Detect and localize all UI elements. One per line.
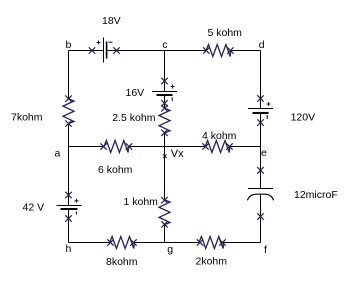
terminal x of 18V right: [114, 48, 120, 54]
svg-text:c: c: [162, 39, 167, 51]
terminal x of capacitor top: [258, 168, 264, 174]
svg-text:7kohm: 7kohm: [11, 112, 43, 124]
terminal x 2.5kohm bottom: [162, 130, 168, 136]
wire 16V battery to 2.5kohm: [164, 96, 166, 109]
terminal x 1kohm top: [162, 197, 168, 203]
wire 7kohm through node a to 42V battery: [68, 124, 70, 206]
terminal x 2.5kohm top: [162, 105, 168, 111]
terminal x 1kohm bottom: [162, 222, 168, 228]
terminal x 2kohm right: [220, 240, 226, 246]
capacitor 12microF: [247, 189, 273, 201]
wire 4kohm to e: [230, 146, 261, 148]
terminal x 4kohm left: [203, 144, 209, 150]
svg-text:h: h: [66, 243, 72, 255]
svg-text:f: f: [264, 244, 267, 256]
wire b to 18V battery: [69, 50, 104, 52]
terminal x 4kohm right: [227, 144, 233, 150]
terminal x of 42V bottom: [66, 216, 72, 222]
terminal x 5kohm left: [204, 48, 210, 54]
terminal x of capacitor bottom: [258, 214, 264, 220]
resistor 7kohm: [63, 99, 74, 124]
terminal x of 16V bottom: [162, 101, 168, 107]
terminal x 5kohm right: [228, 48, 234, 54]
svg-text:d: d: [259, 39, 265, 51]
wire c to 5kohm left terminal: [165, 50, 207, 52]
resistor 2kohm: [199, 237, 224, 249]
battery 16V: [152, 85, 177, 102]
wire d down to 120V battery: [260, 51, 262, 109]
wire 2kohm to f: [223, 242, 261, 244]
svg-text:18V: 18V: [102, 15, 121, 27]
battery 42V: [57, 199, 82, 215]
terminal x 8kohm right: [131, 240, 137, 246]
svg-text:e: e: [261, 147, 267, 159]
resistor 8kohm: [110, 237, 135, 249]
svg-text:120V: 120V: [291, 112, 316, 124]
svg-text:2kohm: 2kohm: [196, 256, 228, 268]
terminal x 8kohm left: [108, 240, 114, 246]
terminal x 7kohm bottom: [66, 121, 72, 127]
wire c down to 16V battery: [164, 51, 166, 92]
svg-text:4 kohm: 4 kohm: [202, 130, 237, 142]
svg-text:Vx: Vx: [171, 148, 184, 160]
terminal x 6kohm right: [126, 144, 132, 150]
svg-text:2.5 kohm: 2.5 kohm: [112, 112, 155, 124]
wire 5kohm right terminal to d: [230, 50, 260, 52]
wire 8kohm through node g to 2kohm: [134, 242, 201, 244]
wire a to 6kohm: [69, 146, 104, 148]
svg-text:g: g: [167, 244, 173, 256]
svg-text:42 V: 42 V: [23, 202, 45, 214]
svg-text:12microF: 12microF: [294, 189, 338, 201]
terminal x 2kohm left: [197, 240, 203, 246]
svg-text:b: b: [66, 39, 72, 51]
battery 120V: [248, 102, 273, 119]
svg-text:16V: 16V: [126, 87, 145, 99]
battery 18V: [97, 38, 113, 63]
svg-text:1 kohm: 1 kohm: [124, 196, 159, 208]
wire 6kohm through node Vx to 4kohm: [129, 146, 206, 148]
svg-text:a: a: [55, 148, 61, 160]
wire 2.5kohm through node Vx to 1kohm: [164, 133, 166, 201]
terminal x 6kohm left: [101, 144, 107, 150]
resistor 1kohm: [159, 200, 170, 225]
wire capacitor to f: [260, 195, 262, 243]
resistor 2.5kohm: [159, 108, 170, 133]
terminal x of 42V top: [66, 192, 72, 198]
wire b down to 7kohm: [68, 51, 70, 100]
wire 18V battery to c: [108, 50, 165, 52]
resistor 5kohm: [206, 45, 231, 57]
terminal x of 120V top: [258, 96, 264, 102]
resistor 4kohm: [205, 141, 230, 153]
svg-text:5 kohm: 5 kohm: [208, 27, 243, 39]
terminal x of 16V top: [162, 78, 168, 84]
svg-text:8kohm: 8kohm: [106, 256, 138, 268]
terminal x of 120V bottom: [258, 120, 264, 126]
resistor 6kohm: [104, 141, 129, 153]
wire h to 8kohm: [69, 242, 111, 244]
wire 1kohm to g: [164, 224, 166, 242]
wire 120V battery to capacitor: [260, 114, 262, 188]
node Vx tick: [163, 155, 167, 159]
svg-text:6 kohm: 6 kohm: [98, 164, 133, 176]
wire 42V battery to h: [68, 210, 70, 243]
terminal x 7kohm top: [66, 96, 72, 102]
terminal x of 18V left: [89, 48, 95, 54]
